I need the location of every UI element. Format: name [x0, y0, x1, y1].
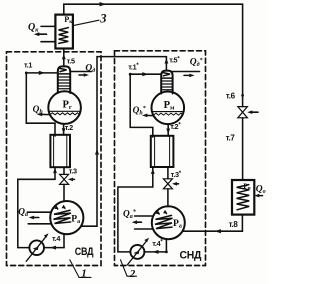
svg-text:т.1: т.1	[24, 61, 32, 70]
absorber A1 coil	[54, 210, 72, 223]
dashed boundary box СВД (stage 1)	[7, 52, 102, 266]
wire т.1: column to left drop	[26, 72, 58, 74]
valve т.3* (right)	[163, 179, 172, 189]
pump P1	[29, 240, 44, 255]
Qк inlet stub bottom	[41, 41, 55, 43]
generator vessel Рм (right)	[152, 92, 185, 125]
label 2 with leader	[121, 260, 128, 276]
svg-text:СВД: СВД	[75, 246, 94, 258]
Qо heat arrow into evaporator	[257, 195, 263, 197]
wire: evaporator bottom to absorber A2, node т.8	[183, 215, 242, 232]
liquid level wave (right)	[154, 113, 184, 115]
liquid level line (right)	[152, 111, 184, 113]
solution heat exchanger HX1 (left)	[50, 135, 70, 167]
svg-text:3: 3	[99, 11, 106, 25]
dashed boundary box СНД (stage 2)	[115, 51, 206, 266]
wire: HX2 to valve т.3*	[167, 167, 169, 179]
solution heat exchanger HX2 (right)	[151, 136, 174, 167]
Qh* heat arrow (right generator)	[146, 114, 153, 116]
svg-text:т.8: т.8	[229, 220, 239, 229]
wire: HX2 bottom-left up-arrow feed	[152, 168, 154, 187]
wire т.2: generator bottom to heat exchanger	[63, 124, 65, 135]
Qа stub top	[27, 211, 51, 213]
wire: pump P1 suction	[44, 247, 64, 249]
Qд stub line (left dephlegmator)	[70, 71, 91, 73]
wire: valve т.3 to absorber A1	[63, 184, 65, 201]
generator vessel Рг (left)	[48, 91, 81, 124]
evaporator coil	[237, 185, 250, 210]
wire т.5: column top to condenser	[63, 49, 65, 67]
absorber A1 (left)	[50, 201, 83, 234]
label 1 with leader	[70, 260, 79, 277]
svg-text:т.5: т.5	[67, 56, 75, 65]
valve т.3 actuator arrow	[71, 178, 75, 180]
Qд heat arrow	[79, 74, 86, 76]
wire т.5*: column top to vapor header	[165, 57, 167, 71]
valve т.3 (left)	[60, 174, 69, 184]
condenser coil	[59, 28, 69, 44]
Qh heat arrow (left generator)	[40, 113, 50, 115]
rectifier column on generator (right)	[161, 71, 172, 94]
label 3 with leader	[73, 20, 99, 25]
absorber A1 spray arrows	[55, 206, 58, 209]
condenser U3 (top heat-exchanger box)	[55, 15, 73, 49]
Qа stub bottom	[28, 223, 51, 225]
arrow on top wire	[100, 2, 107, 6]
valve т.3* actuator arrow	[175, 183, 179, 185]
Qа* heat arrow	[135, 221, 142, 223]
absorber A2 (right)	[152, 206, 185, 239]
evaporator И (right heat-exchanger box)	[232, 180, 254, 215]
wire: condenser top to right main line	[64, 4, 243, 106]
Qа heat arrow	[32, 217, 39, 219]
wire т.1*: vapor feed into column	[130, 73, 161, 75]
column trays (right)	[162, 81, 172, 90]
svg-text:т.2: т.2	[65, 123, 73, 132]
liquid level wave	[50, 113, 80, 115]
svg-text:т.6: т.6	[226, 91, 236, 100]
Qк heat arrow	[38, 33, 47, 35]
Qк inlet stub top	[41, 25, 55, 27]
absorber A2 coil	[155, 215, 173, 228]
svg-text:т.4: т.4	[52, 234, 61, 243]
wire: absorber A1 vapor line up to СНД column	[81, 57, 166, 227]
svg-text:т.7: т.7	[226, 134, 236, 143]
node т.6	[241, 94, 244, 97]
wire: pump P1 discharge run	[18, 179, 55, 247]
svg-text:СНД: СНД	[180, 249, 202, 261]
wire: absorber A1 bottom to pump line	[63, 234, 65, 248]
valve V6 actuator arrow	[250, 111, 258, 113]
wire: pump P2 suction	[144, 251, 166, 253]
rectifier column on generator (left)	[58, 66, 70, 93]
Qа* stub bottom	[135, 228, 153, 230]
wire: valve т.3* to absorber A2	[167, 189, 169, 207]
wire: absorber A2 bottom to pump line	[165, 239, 167, 252]
column trays	[58, 77, 69, 89]
dephlegmator squiggle	[59, 68, 69, 74]
wire: HX1 bottom-left up-arrow feed	[54, 167, 56, 179]
wire: left drop to heat exchanger HX2	[130, 74, 153, 137]
wire: valve V6 to evaporator	[242, 118, 244, 180]
wire т.2*: generator bottom to HX2	[167, 124, 169, 136]
wire: HX1 to valve т.3	[63, 167, 65, 174]
svg-text:2: 2	[129, 268, 136, 280]
pump P2	[130, 245, 144, 259]
liquid level line	[49, 110, 80, 112]
wire: pump P2 discharge run	[118, 187, 153, 252]
Qд* stub line (right dephlegmator)	[173, 71, 200, 73]
expansion valve V6	[238, 107, 248, 118]
svg-text:т.3: т.3	[69, 167, 77, 176]
absorber A2 spray arrows	[157, 212, 160, 215]
svg-text:1: 1	[81, 267, 87, 279]
dephlegmator squiggle (right)	[163, 73, 173, 79]
Qа* stub top	[135, 215, 153, 217]
wire: left drop to heat exchanger top	[26, 73, 55, 136]
Qд* heat arrow	[184, 74, 191, 76]
